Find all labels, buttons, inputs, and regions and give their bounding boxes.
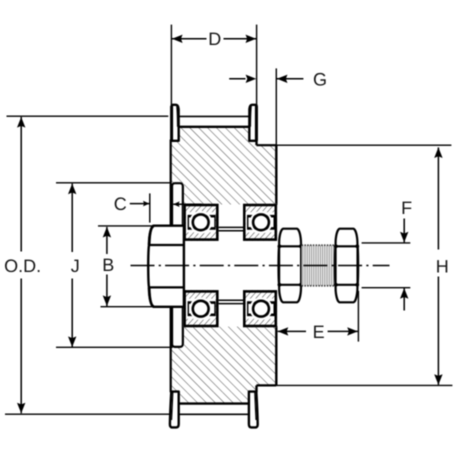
- dimension B: [98, 226, 153, 307]
- svg-text:F: F: [401, 198, 412, 218]
- dimension J: [56, 183, 173, 347]
- dimension O.D.: [4, 116, 170, 414]
- dimension D: [171, 25, 256, 105]
- dimension H: [276, 145, 452, 385]
- svg-text:C: C: [114, 194, 127, 214]
- svg-text:H: H: [436, 256, 449, 276]
- bearing bottom-right: [243, 290, 277, 327]
- bearing top-left: [183, 204, 218, 241]
- flange top-left: [172, 105, 179, 141]
- svg-text:J: J: [71, 256, 80, 276]
- flange top-right: [249, 105, 256, 141]
- hex nut outer (N2): [334, 229, 359, 303]
- dimension C: [114, 193, 202, 222]
- svg-text:G: G: [313, 69, 327, 89]
- hub boss top face: [256, 144, 276, 146]
- pulley right face lower: [255, 385, 257, 392]
- hex bolt head: [148, 226, 184, 307]
- dimension E: [278, 291, 359, 342]
- pulley groove surface lines bottom: [179, 404, 249, 415]
- svg-text:E: E: [313, 322, 325, 342]
- svg-text:O.D.: O.D.: [4, 256, 41, 276]
- pulley groove surface lines top: [179, 116, 249, 126]
- dimension G: [229, 68, 327, 145]
- retainer washer plate: [172, 183, 183, 347]
- pulley body hatched section: [171, 127, 276, 404]
- threaded stud: [302, 245, 336, 286]
- dimension F: [362, 198, 413, 310]
- flange bottom-left: [170, 392, 179, 428]
- hex nut inner (N1): [278, 229, 303, 303]
- flange bottom-right: [249, 392, 258, 428]
- hub boss right face: [275, 145, 277, 385]
- bearing spacer tube lines: [219, 227, 244, 303]
- hub boss bottom face: [256, 384, 276, 386]
- svg-text:B: B: [102, 255, 114, 275]
- bearing top-right: [243, 204, 277, 241]
- bearing bottom-left: [183, 290, 218, 327]
- pulley left face: [170, 140, 172, 393]
- centerline: [131, 265, 390, 267]
- pulley right face upper: [255, 105, 257, 146]
- svg-text:D: D: [208, 29, 221, 49]
